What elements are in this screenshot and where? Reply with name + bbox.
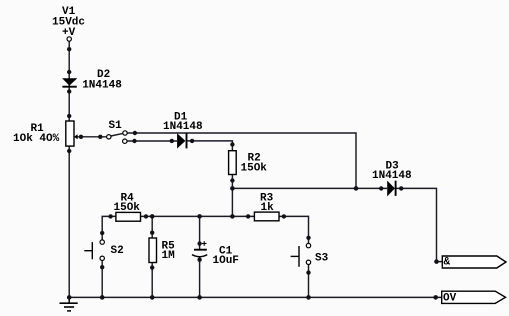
wire (199, 257, 201, 298)
svg-text:1M: 1M (162, 250, 176, 262)
ground (60, 297, 78, 311)
wire (68, 41, 70, 121)
diode D3 (372, 161, 412, 197)
svg-text:S1: S1 (109, 120, 123, 132)
wire (308, 264, 310, 297)
wire (187, 141, 233, 151)
svg-text:1N4148: 1N4148 (372, 170, 412, 182)
wire (68, 146, 70, 297)
switch S1 bottom throw circle (123, 139, 127, 143)
wire (151, 216, 153, 238)
wire (151, 263, 153, 298)
svg-text:15Ok: 15Ok (241, 163, 268, 175)
svg-text:+V: +V (62, 27, 76, 39)
switch S1 pole circle (107, 135, 111, 139)
svg-text:15Ok: 15Ok (114, 202, 141, 214)
svg-text:1N4148: 1N4148 (82, 80, 122, 92)
wire (101, 260, 103, 297)
wire (199, 216, 201, 249)
resistor R1 (13, 121, 78, 146)
node 0V output connector (442, 291, 506, 304)
wire (396, 188, 443, 261)
switch S2 contact circles (100, 240, 104, 244)
wire (231, 175, 233, 217)
switch S1 top throw circle (123, 131, 127, 135)
node +V terminal (67, 37, 71, 41)
wire (127, 133, 356, 188)
node & output connector (442, 256, 506, 269)
wire (141, 215, 255, 217)
svg-text:1k: 1k (261, 202, 275, 214)
resistor R2 (229, 151, 268, 175)
switch S2 (84, 242, 123, 259)
resistor R5 (149, 238, 175, 263)
resistor R3 (254, 192, 279, 221)
svg-text:OV: OV (443, 293, 457, 305)
wire (69, 296, 442, 298)
wire (102, 216, 116, 240)
switch S3 (291, 246, 329, 267)
svg-text:1N4148: 1N4148 (163, 121, 203, 133)
capacitor C1 (192, 241, 239, 267)
wire (77, 136, 106, 138)
wire (279, 216, 309, 243)
resistor R4 (114, 192, 141, 221)
wire (111, 133, 123, 136)
svg-text:&: & (444, 257, 451, 269)
diode D1 (163, 112, 203, 149)
svg-text:S3: S3 (315, 253, 329, 265)
svg-text:S2: S2 (111, 245, 124, 257)
svg-text:1Ok 4O%: 1Ok 4O% (13, 133, 60, 145)
wire (232, 187, 387, 189)
switch S3 contact circles (306, 243, 310, 247)
node V1 label (52, 6, 85, 39)
wire (127, 140, 177, 142)
svg-text:1OuF: 1OuF (213, 255, 239, 267)
switch S1 (109, 120, 123, 132)
diode D2 (62, 69, 122, 92)
